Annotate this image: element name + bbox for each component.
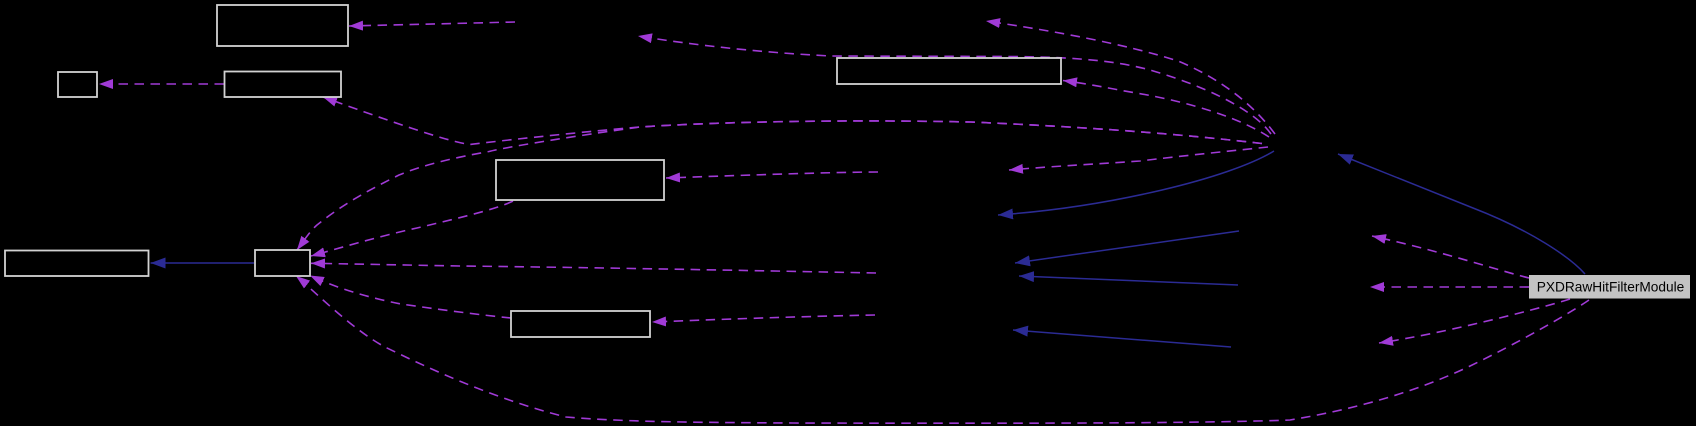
edge: invisible node B12 to node F right (K3 long flat)	[311, 263, 876, 273]
node G (class box, empty label)	[511, 311, 650, 337]
edge: invisible node to node D right (hD)	[666, 172, 878, 178]
edge: hub Module to node H (h2)	[1063, 81, 1269, 138]
edge: hub Module to node C (long corridor upper strand)	[323, 97, 1262, 145]
node A (class box, empty label)	[217, 5, 348, 46]
edge: hub Module to invisible node ModuleParamList (h4)	[1009, 147, 1268, 170]
node F (class box, empty label)	[255, 250, 310, 276]
svg-text:PXDRawHitFilterModule: PXDRawHitFilterModule	[1537, 280, 1685, 295]
blue inheritance edge: hub Module to invisible PathElement (alpha)	[998, 151, 1274, 215]
edge: node I to invisible node R3 (p3)	[1379, 299, 1570, 343]
edge: node G left to node F bottom-right (aB1)	[310, 276, 511, 319]
edge: hub Module to node F top (long corridor lower strand)	[297, 121, 1262, 250]
edge: node I (PXDRawHitFilterModule) to node F bottom, long bottom curve (aB2)	[296, 276, 1589, 423]
edge: node D bottom to node F right-top (aR1)	[311, 201, 513, 256]
node E (class box, empty label)	[5, 251, 149, 277]
node I: PXDRawHitFilterModule (current class, grey fill)	[1529, 275, 1690, 299]
edge: node I to invisible node R1 (p1)	[1372, 236, 1529, 278]
edge: hub Module to invisible node top-right (h1)	[986, 21, 1275, 134]
blue inheritance edge: invisible R3 to invisible base (delta)	[1013, 330, 1231, 347]
blue inheritance edge: invisible R1 to invisible base (beta)	[1015, 231, 1239, 263]
node C (class box, empty label)	[225, 72, 342, 98]
node B (class box, empty label)	[58, 72, 97, 97]
blue inheritance edge: node F to node E	[151, 262, 254, 264]
node D (class box, empty label)	[496, 160, 664, 200]
edge: hub Module to invisible node W (rides over box H, hW)	[638, 36, 1271, 134]
blue inheritance edge: invisible R2 to invisible base (gamma)	[1019, 276, 1238, 285]
edge: invisible node B3 to node G right (flat)	[652, 315, 875, 322]
blue inheritance edge: node I to hub Module (epsilon)	[1338, 154, 1585, 274]
edge: node C to node B (dashed usage arrow)	[99, 83, 224, 85]
edge: invisible node W to node A (dashed usage arrow)	[349, 22, 515, 26]
node H (class box, empty label)	[837, 58, 1061, 84]
edge: node I to invisible node R2 (p2)	[1370, 286, 1529, 288]
